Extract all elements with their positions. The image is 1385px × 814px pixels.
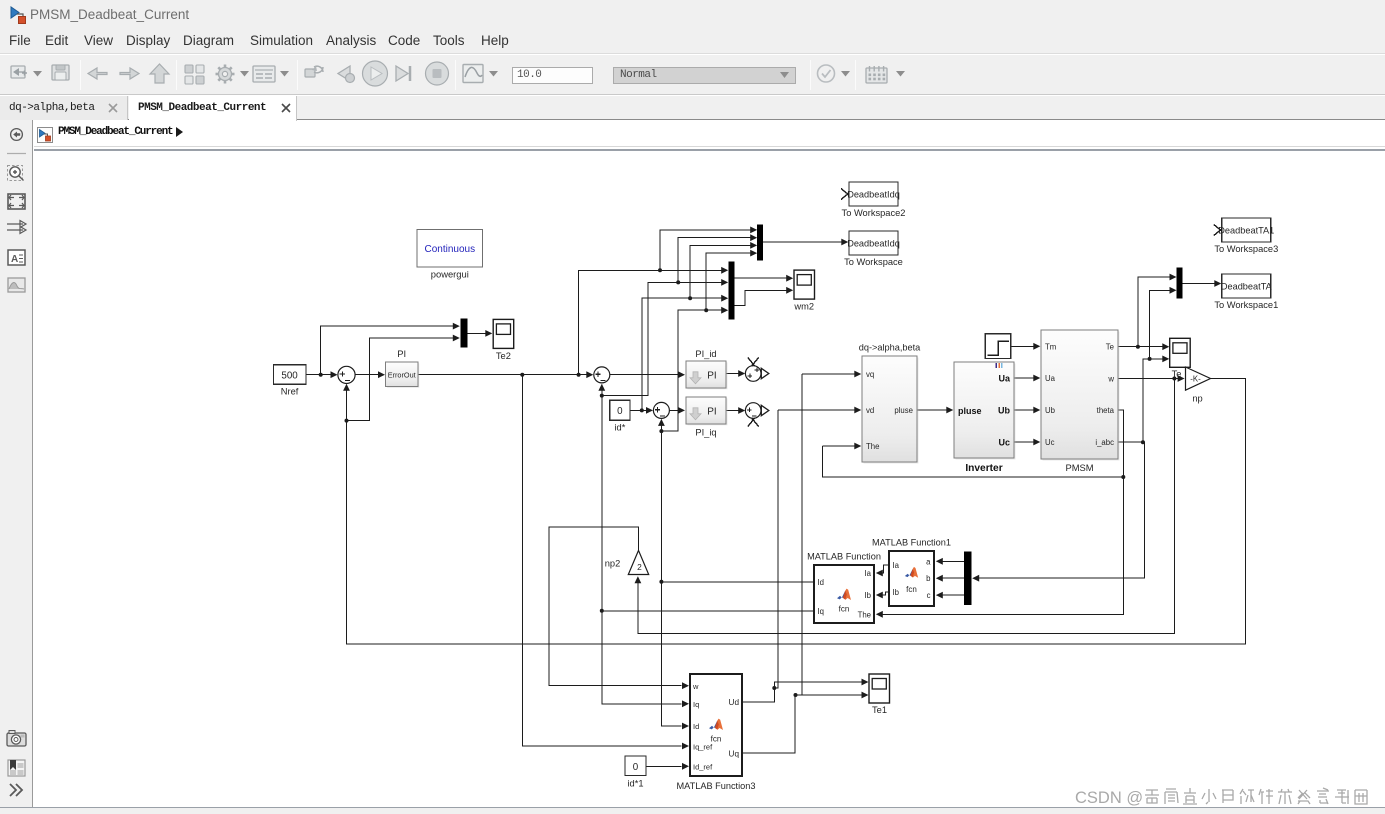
svg-text:A: A xyxy=(11,254,18,265)
